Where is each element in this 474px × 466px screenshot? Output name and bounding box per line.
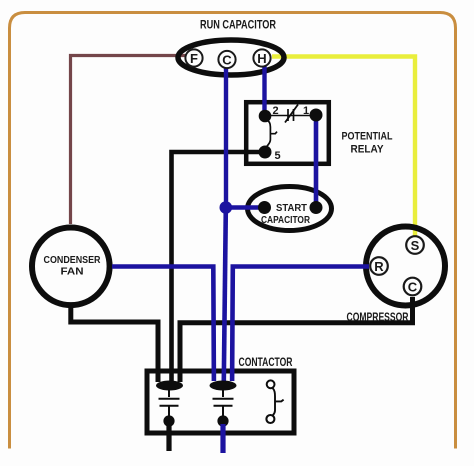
wire black: contactor pole 1 to line (166, 424, 171, 451)
contactor pole 2 terminal lug (210, 381, 237, 391)
relay terminal 5 (259, 146, 272, 159)
contactor coil bottom terminal (266, 415, 274, 423)
condenser fan circle (32, 227, 110, 305)
svg-text:FAN: FAN (61, 267, 84, 278)
svg-text:CONDENSER: CONDENSER (44, 254, 101, 266)
label CONDENSER FAN (44, 254, 101, 278)
relay contact line 2-1 (265, 115, 316, 117)
wire black: compressor C to contactor (180, 297, 413, 382)
start capacitor left terminal (258, 201, 271, 214)
potential relay box (246, 102, 329, 164)
compressor terminal S (406, 236, 424, 254)
run capacitor terminal H (253, 49, 270, 66)
wire black: relay 5 to contactor (172, 152, 266, 382)
start capacitor right terminal (310, 201, 323, 214)
svg-text:START: START (276, 203, 307, 214)
start capacitor ellipse (248, 187, 332, 231)
label START CAPACITOR (261, 203, 311, 226)
wire blue: junction down to contactor (224, 210, 226, 381)
wire blue: condenser fan to contactor (112, 267, 214, 382)
svg-text:RUN CAPACITOR: RUN CAPACITOR (200, 18, 276, 32)
relay contact slash (285, 105, 298, 123)
svg-text:F: F (190, 51, 198, 66)
contactor box (147, 371, 294, 433)
svg-text:COMPRESSOR: COMPRESSOR (347, 310, 409, 324)
compressor terminal R (370, 257, 388, 275)
svg-text:S: S (411, 238, 420, 253)
svg-text:CONTACTOR: CONTACTOR (239, 355, 293, 369)
svg-text:2: 2 (272, 105, 278, 117)
svg-text:5: 5 (274, 150, 280, 162)
wire yellow: run capacitor H to compressor S (272, 57, 415, 240)
wire blue: run capacitor C down to junction (224, 68, 228, 208)
contactor pole 1 terminal lug (156, 381, 183, 391)
relay contact ticks (288, 109, 294, 121)
relay terminal 1 (310, 109, 323, 122)
svg-text:R: R (374, 259, 384, 274)
relay terminal 2 (259, 110, 272, 123)
contactor coil squiggle (272, 388, 283, 416)
wire blue: contactor pole 2 to line (220, 424, 225, 453)
run capacitor terminal C (218, 51, 235, 68)
contactor pole 1 node (163, 415, 174, 426)
svg-text:RELAY: RELAY (351, 144, 385, 156)
run capacitor terminal F (185, 49, 202, 66)
wire blue: junction to start capacitor (226, 205, 260, 210)
svg-text:H: H (257, 51, 266, 66)
wire blue: run capacitor H to relay 2 (262, 66, 266, 117)
contactor pole 2 contact (213, 390, 234, 417)
wire blue: relay 1 to start capacitor (314, 121, 319, 203)
contactor pole 2 node (217, 415, 228, 426)
node blue junction (220, 201, 233, 214)
wire brown: L1 to run capacitor F and condenser fan (71, 56, 187, 225)
label POTENTIAL RELAY (342, 131, 393, 156)
contactor coil top terminal (267, 380, 275, 388)
svg-text:C: C (408, 280, 418, 295)
svg-text:C: C (222, 52, 232, 67)
compressor circle (366, 227, 445, 306)
wire black: condenser fan common to contactor (71, 306, 158, 382)
svg-text:CAPACITOR: CAPACITOR (261, 215, 311, 226)
run capacitor ellipse (178, 40, 284, 75)
contactor pole 1 contact (159, 390, 180, 417)
wire blue: compressor R to contactor (232, 267, 369, 382)
relay coil 2-5 (266, 119, 278, 147)
svg-text:1: 1 (303, 105, 309, 117)
svg-text:POTENTIAL: POTENTIAL (342, 131, 393, 143)
compressor terminal C (404, 278, 422, 296)
